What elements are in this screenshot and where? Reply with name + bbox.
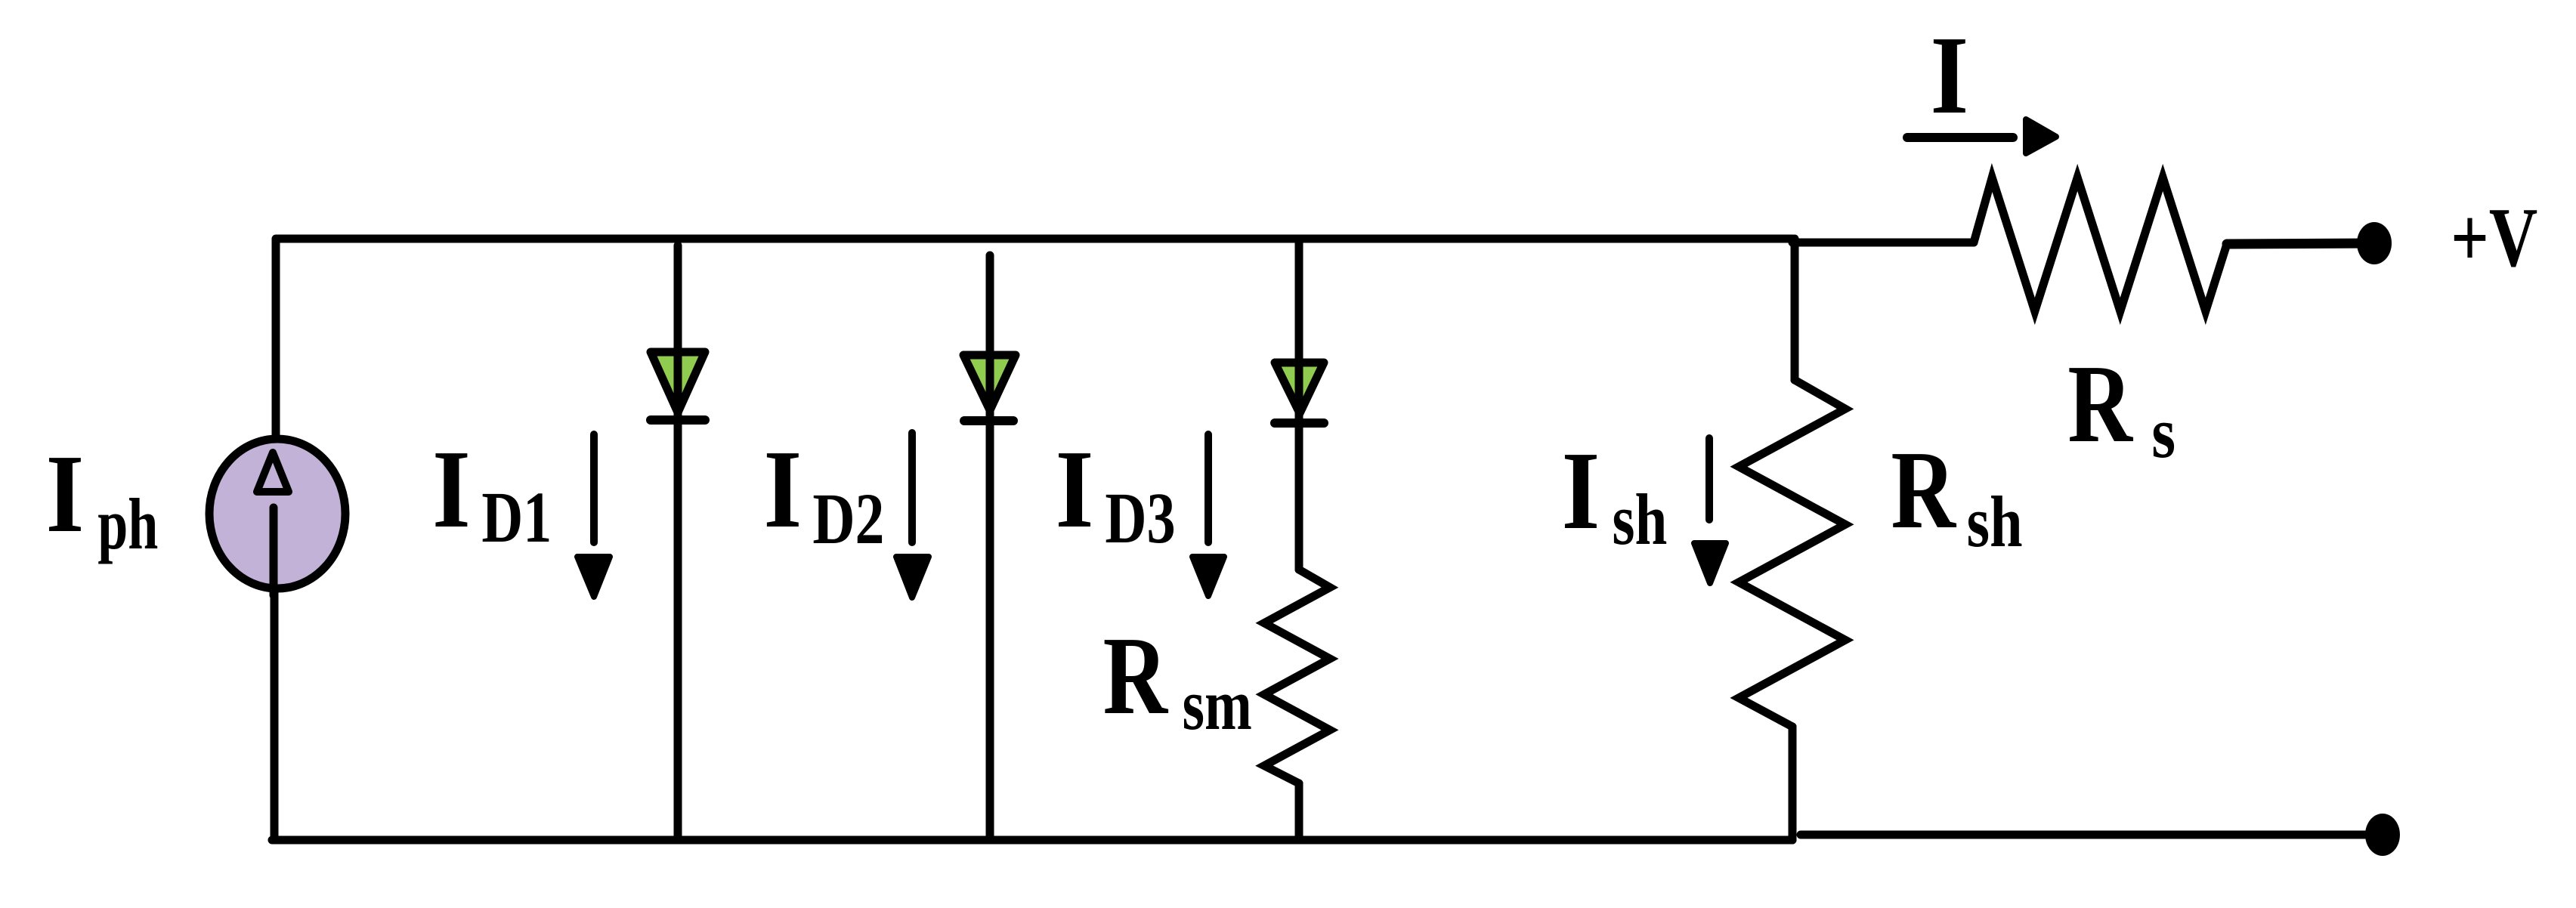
current source arrow head (open triangle) bbox=[257, 452, 289, 492]
diode D3 (green triangle) bbox=[1275, 363, 1324, 413]
svg-text:sm: sm bbox=[1183, 664, 1252, 745]
arrow Ish: shaft bbox=[1705, 438, 1713, 520]
wire: Rsh top stem bbox=[1791, 239, 1799, 380]
wire: Rs to +V terminal bbox=[2227, 243, 2369, 244]
svg-text:I: I bbox=[764, 428, 802, 551]
svg-text:+V: +V bbox=[2451, 190, 2537, 284]
diode D3 cathode bar bbox=[1275, 418, 1324, 428]
wire: bottom bus right section to terminal bbox=[1801, 831, 2373, 839]
wire over diode D1 bbox=[674, 344, 682, 418]
diode D1 (green triangle) bbox=[651, 352, 705, 412]
wire: Rsh bottom stem bbox=[1789, 727, 1797, 840]
svg-text:I: I bbox=[432, 428, 471, 551]
wire: Rsm to bottom bus bbox=[1295, 783, 1303, 840]
svg-text:D1: D1 bbox=[481, 477, 552, 557]
wire: top segment from Rsh junction to Rs bbox=[1792, 239, 1974, 247]
terminal dot +V bbox=[2357, 222, 2392, 264]
diode D1 branch wire bbox=[674, 246, 682, 840]
arrow ID2: shaft bbox=[908, 433, 916, 542]
diode D2 (green triangle) bbox=[963, 355, 1016, 410]
arrow ID1: shaft bbox=[590, 434, 598, 542]
arrow ID1: head bbox=[577, 557, 610, 597]
diode D3 branch wire (top bus to resistor) bbox=[1295, 239, 1303, 570]
svg-text:D2: D2 bbox=[812, 478, 884, 559]
svg-text:I: I bbox=[1931, 14, 1969, 137]
svg-text:I: I bbox=[1562, 429, 1600, 552]
wire: top bus from left corner to Rsh junction bbox=[276, 239, 1792, 243]
svg-text:s: s bbox=[2151, 394, 2176, 474]
wire over diode D3 bbox=[1295, 353, 1303, 421]
current source Iph: circle symbol bbox=[209, 439, 345, 588]
resistor Rs zigzag bbox=[1974, 178, 2227, 311]
resistor Rsm zigzag bbox=[1264, 570, 1330, 783]
svg-text:R: R bbox=[2067, 343, 2134, 466]
arrow ID3: head bbox=[1192, 557, 1224, 596]
wire: current source inner lead + bottom stem down to bottom bus bbox=[271, 506, 279, 839]
arrow Ish: head bbox=[1694, 543, 1726, 583]
svg-text:sh: sh bbox=[1613, 479, 1668, 560]
diode D2 branch wire bbox=[986, 255, 994, 840]
resistor Rsh zigzag bbox=[1739, 380, 1845, 727]
svg-text:R: R bbox=[1891, 429, 1956, 552]
arrow I: head bbox=[2026, 119, 2056, 153]
wire over diode D2 bbox=[986, 347, 994, 415]
terminal dot bottom bbox=[2365, 814, 2400, 856]
arrow I: shaft bbox=[1907, 133, 2013, 142]
wire: current source inner lead (over circle fill) bbox=[270, 508, 278, 595]
wire: left vertical from top bus down to current source bbox=[272, 239, 280, 437]
svg-text:D3: D3 bbox=[1105, 478, 1175, 558]
svg-text:ph: ph bbox=[97, 484, 158, 564]
svg-text:I: I bbox=[1056, 428, 1094, 551]
svg-text:R: R bbox=[1103, 614, 1169, 737]
arrow ID2: head bbox=[896, 557, 929, 598]
wire: bottom bus left section bbox=[272, 836, 1792, 845]
arrow ID3: shaft bbox=[1205, 434, 1212, 542]
svg-text:sh: sh bbox=[1967, 481, 2023, 561]
diode D1 cathode bar bbox=[651, 415, 705, 425]
diode D2 cathode bar bbox=[964, 416, 1013, 425]
svg-text:I: I bbox=[46, 432, 85, 555]
